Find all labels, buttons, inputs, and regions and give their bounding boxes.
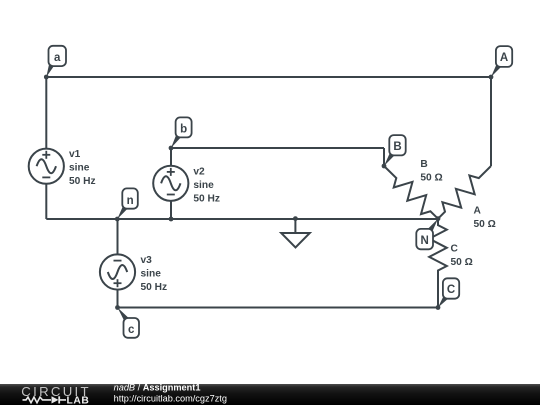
node N xyxy=(416,216,440,249)
svg-text:C: C xyxy=(447,284,455,296)
svg-text:b: b xyxy=(180,124,187,136)
svg-text:50 Ω: 50 Ω xyxy=(451,257,473,268)
wire v2 minus down xyxy=(170,200,172,219)
svg-text:B: B xyxy=(420,159,427,170)
svg-text:v1: v1 xyxy=(69,149,81,160)
svg-text:A: A xyxy=(474,206,482,217)
wire v2 bottom to ground xyxy=(171,218,295,220)
wire b to v2 plus xyxy=(170,148,172,166)
resistor B value label xyxy=(420,159,442,184)
svg-text:sine: sine xyxy=(141,269,162,280)
svg-text:nadB / Assignment1: nadB / Assignment1 xyxy=(114,384,201,393)
wire n to v2 bottom xyxy=(117,218,171,220)
resistor C xyxy=(429,219,447,308)
svg-text:c: c xyxy=(128,324,135,336)
svg-text:C: C xyxy=(451,244,459,255)
v2 value label xyxy=(193,166,220,204)
svg-text:n: n xyxy=(127,195,134,207)
svg-text:50 Ω: 50 Ω xyxy=(420,173,442,184)
svg-text:N: N xyxy=(421,235,429,247)
voltage source v3 xyxy=(100,254,135,289)
node n xyxy=(115,188,138,221)
voltage source v1 xyxy=(29,149,64,184)
resistor A xyxy=(438,166,491,219)
wire c to C bottom xyxy=(118,307,439,309)
wire ground to N xyxy=(295,218,438,220)
node a xyxy=(44,46,66,80)
junction v2-n wire xyxy=(169,217,174,222)
footer bar xyxy=(0,384,540,405)
resistor A value label xyxy=(474,206,496,231)
svg-text:50 Hz: 50 Hz xyxy=(69,176,96,187)
ground xyxy=(281,216,310,247)
svg-text:sine: sine xyxy=(193,180,214,191)
node A xyxy=(489,46,513,79)
svg-text:B: B xyxy=(393,141,401,153)
svg-text:sine: sine xyxy=(69,163,90,174)
wire v1 minus down xyxy=(45,183,47,219)
voltage source v2 xyxy=(153,166,188,201)
svg-text:v3: v3 xyxy=(141,255,153,266)
CircuitLab logo xyxy=(0,384,540,405)
wire corner down to B xyxy=(383,148,385,166)
wire a to v1 plus xyxy=(45,77,47,149)
wire v3 plus down to c xyxy=(117,289,119,307)
svg-text:v2: v2 xyxy=(193,166,205,177)
resistor B xyxy=(384,166,438,219)
svg-text:LAB: LAB xyxy=(67,396,90,405)
node C xyxy=(436,278,460,310)
node B xyxy=(382,135,406,168)
svg-text:50 Hz: 50 Hz xyxy=(193,193,220,204)
wire a-A top xyxy=(46,76,491,78)
node c xyxy=(115,305,139,338)
v1 value label xyxy=(69,149,96,187)
svg-text:http://circuitlab.com/cgz7ztg: http://circuitlab.com/cgz7ztg xyxy=(114,394,227,404)
svg-text:a: a xyxy=(54,52,61,64)
resistor C value label xyxy=(451,244,473,269)
wire A down to resistor A xyxy=(490,77,492,166)
wire v1 to n xyxy=(46,218,117,220)
v3 value label xyxy=(141,255,168,293)
svg-text:50 Hz: 50 Hz xyxy=(141,282,168,293)
svg-text:50 Ω: 50 Ω xyxy=(474,219,496,230)
node b xyxy=(169,117,192,150)
wire b to corner xyxy=(171,147,384,149)
wire n to v3 minus xyxy=(117,219,119,255)
svg-text:A: A xyxy=(500,52,508,64)
